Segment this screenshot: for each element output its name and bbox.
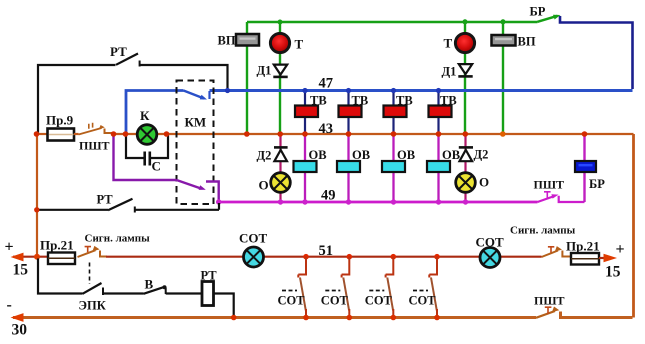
wire crimson Д2-О column left	[279, 134, 281, 202]
svg-text:51: 51	[319, 243, 334, 259]
fuse Пр.21 left	[48, 253, 75, 265]
svg-text:ВП: ВП	[218, 34, 236, 48]
svg-text:-: -	[7, 297, 12, 314]
svg-text:Д1: Д1	[442, 65, 457, 79]
node blue junction ТВ4	[436, 88, 441, 93]
node blue junction ТВ3	[391, 88, 396, 93]
svg-text:КМ: КМ	[185, 115, 207, 130]
svg-text:СОТ: СОТ	[239, 231, 268, 246]
wire navy ТВ stub 1	[304, 91, 306, 134]
svg-text:+: +	[5, 239, 14, 256]
fuse Пр.21 right	[571, 253, 599, 265]
switch Сигн. лампы right	[542, 251, 559, 258]
lamp СОТ left	[244, 247, 264, 267]
node green junction left	[278, 20, 283, 25]
wire green vertical through ВП right	[502, 22, 504, 134]
svg-text:Пр.9: Пр.9	[46, 113, 74, 128]
node red junctions on line 43	[34, 131, 40, 137]
resistor ОВ2	[337, 161, 360, 172]
svg-text:47: 47	[319, 76, 334, 92]
switch В blade	[144, 287, 164, 294]
wire magenta ОВ stub 4	[437, 134, 439, 202]
svg-text:БР: БР	[530, 5, 546, 19]
svg-text:РТ: РТ	[97, 193, 114, 207]
resistor ВП right	[492, 35, 516, 46]
switch БР blade (green)	[538, 16, 558, 22]
wire orange left vertical 43 to 51	[36, 134, 38, 257]
svg-text:ТВ: ТВ	[396, 94, 413, 108]
diode Д1 right	[459, 64, 472, 74]
svg-text:ВП: ВП	[518, 35, 536, 49]
svg-text:ЭПК: ЭПК	[79, 299, 106, 313]
svg-text:СОТ: СОТ	[321, 294, 349, 308]
diode Д2 left	[274, 146, 288, 149]
resistor ТВ2	[339, 106, 362, 118]
wire black to line 49	[135, 203, 219, 210]
wire magenta ОВ stub 3	[392, 134, 394, 202]
switch РТ (top) contact	[139, 61, 141, 67]
node junction 51/left vertical	[34, 254, 40, 260]
svg-text:30: 30	[12, 322, 28, 339]
node red junctions on 51	[303, 254, 309, 260]
lamp К	[137, 125, 157, 145]
wire green vertical through ВП left	[246, 22, 248, 133]
svg-text:В: В	[145, 277, 154, 292]
svg-text:ОВ: ОВ	[397, 148, 415, 162]
svg-text:+: +	[616, 241, 625, 258]
node black/orange junction left	[34, 207, 39, 212]
wire black lower РТ branch	[37, 209, 109, 211]
switch ПШТ on line 49	[538, 196, 555, 202]
wire 51 continue	[106, 256, 542, 258]
resistor ВП left	[236, 34, 259, 46]
wire black РТ to line 47	[140, 65, 228, 89]
wire black to РТ coil	[166, 292, 202, 294]
wire dark red line 51	[13, 256, 48, 258]
wire green vertical lamp Т right column	[464, 22, 466, 134]
arrow left -30	[11, 313, 24, 322]
wire navy ТВ stub 4	[437, 91, 439, 134]
fuse Пр.9	[48, 129, 75, 141]
svg-text:ОВ: ОВ	[442, 148, 460, 162]
diode Д1 left	[274, 65, 287, 75]
switch СОТ2 branch	[342, 257, 350, 278]
wire black top-left vertical and horizontal to РТ	[38, 65, 116, 134]
svg-text:ПШТ: ПШТ	[534, 178, 565, 192]
node junction РТ coil/30	[231, 315, 237, 321]
resistor ОВ4	[427, 161, 450, 172]
resistor ТВ4	[429, 106, 452, 118]
wire navy from БР contact to line 47 right	[560, 16, 633, 89]
resistor ОВ3	[382, 161, 405, 172]
svg-text:49: 49	[321, 188, 336, 204]
svg-text:С: С	[152, 159, 161, 174]
wire and arrow right +15	[599, 257, 604, 259]
svg-text:О: О	[479, 175, 489, 190]
wire magenta ОВ stub 1	[304, 134, 306, 202]
svg-text:ОВ: ОВ	[352, 148, 370, 162]
svg-text:Д2: Д2	[257, 149, 272, 163]
node blue junction ТВ1	[302, 88, 307, 93]
arrow left +15	[11, 253, 24, 262]
switch КМ lower blade (purple)	[177, 180, 200, 188]
svg-text:Т: Т	[444, 36, 453, 51]
svg-text:43: 43	[319, 121, 334, 137]
switch РТ (top) blade	[116, 54, 138, 65]
wire navy ТВ stub 2	[347, 91, 349, 134]
svg-text:СОТ: СОТ	[476, 235, 505, 250]
switch КМ blade on line 47	[184, 91, 205, 99]
wire navy ТВ stub 3	[392, 91, 394, 134]
wire purple from 43 down to КМ lower switch	[114, 135, 177, 181]
lamp СОТ right	[480, 248, 500, 268]
wire blue line 47 main	[210, 89, 633, 92]
wire orange right vertical 43 to 30	[632, 134, 635, 318]
lamp Т left	[270, 33, 289, 52]
relay БР coil	[575, 161, 596, 172]
relay РТ coil	[202, 282, 214, 306]
svg-text:О: О	[259, 178, 269, 193]
node magenta 49 junctions	[216, 199, 221, 204]
svg-text:ПШТ: ПШТ	[79, 139, 110, 153]
lamp Т right	[455, 33, 474, 52]
wire orange line 30	[13, 316, 536, 319]
svg-text:СОТ: СОТ	[409, 294, 437, 308]
resistor ТВ3	[384, 106, 407, 118]
wire green bus 21 horizontal	[247, 21, 538, 23]
svg-text:Пр.21: Пр.21	[40, 238, 74, 253]
switch ПШТ on line 43	[79, 128, 102, 135]
svg-text:ОВ: ОВ	[309, 148, 327, 162]
wire orange line 43 segment left	[37, 133, 49, 135]
capacitor С bracket	[126, 135, 168, 158]
node blue junction РТ/47	[225, 88, 230, 93]
svg-text:Пр.21: Пр.21	[566, 239, 600, 254]
svg-text:Сигн. лампы: Сигн. лампы	[85, 233, 151, 245]
wire green vertical lamp Т left column	[279, 22, 281, 133]
svg-text:15: 15	[605, 264, 621, 281]
svg-text:БР: БР	[589, 177, 605, 191]
node green junction mid	[463, 19, 468, 24]
wire orange line 43 main	[112, 133, 634, 135]
switch Сигн. лампы left	[78, 250, 96, 257]
switch СОТ4 branch	[429, 257, 437, 278]
svg-text:Д1: Д1	[257, 64, 272, 78]
svg-text:Т: Т	[295, 37, 304, 52]
wire black to В	[103, 292, 144, 294]
svg-text:СОТ: СОТ	[278, 294, 306, 308]
node green junction right	[501, 19, 506, 24]
wire black ЭПК branch from 51	[38, 259, 83, 294]
switch РТ (lower) blade	[108, 199, 133, 210]
svg-text:РТ: РТ	[110, 44, 127, 59]
wire black РТ coil to line 30	[214, 294, 234, 317]
svg-text:ТВ: ТВ	[310, 94, 327, 108]
wire magenta ОВ stub 2	[347, 134, 349, 202]
resistor ТВ1	[295, 106, 318, 118]
svg-text:К: К	[140, 108, 150, 123]
resistor ОВ1	[294, 161, 317, 172]
lamp О left	[271, 173, 291, 193]
svg-text:ТВ: ТВ	[352, 94, 369, 108]
switch ЭПК dashed actuator	[89, 263, 91, 285]
wire orange 43 fuse to switch	[74, 133, 79, 135]
svg-text:15: 15	[13, 262, 29, 279]
wire crimson Д2-О column right	[464, 134, 466, 202]
switch СОТ1 branch	[298, 257, 306, 278]
svg-text:ТВ: ТВ	[440, 94, 457, 108]
switch СОТ3 branch	[386, 257, 394, 278]
svg-text:Сигн. лампы: Сигн. лампы	[510, 225, 576, 237]
relay box КМ dashed	[177, 81, 214, 205]
wire magenta up to 43 through БР	[583, 134, 585, 202]
lamp О right	[456, 173, 476, 193]
svg-text:СОТ: СОТ	[365, 294, 393, 308]
switch ЭПК blade	[83, 283, 102, 294]
svg-text:РТ: РТ	[201, 269, 218, 283]
svg-text:Д2: Д2	[474, 148, 489, 162]
switch ПШТ on line 30	[536, 311, 555, 318]
svg-text:ПШТ: ПШТ	[534, 294, 565, 308]
wire blue line 47 left segment with corner down	[126, 91, 184, 134]
diode Д2 right	[459, 146, 473, 149]
wire magenta line 49	[219, 201, 538, 204]
node blue junction ТВ2	[346, 88, 351, 93]
